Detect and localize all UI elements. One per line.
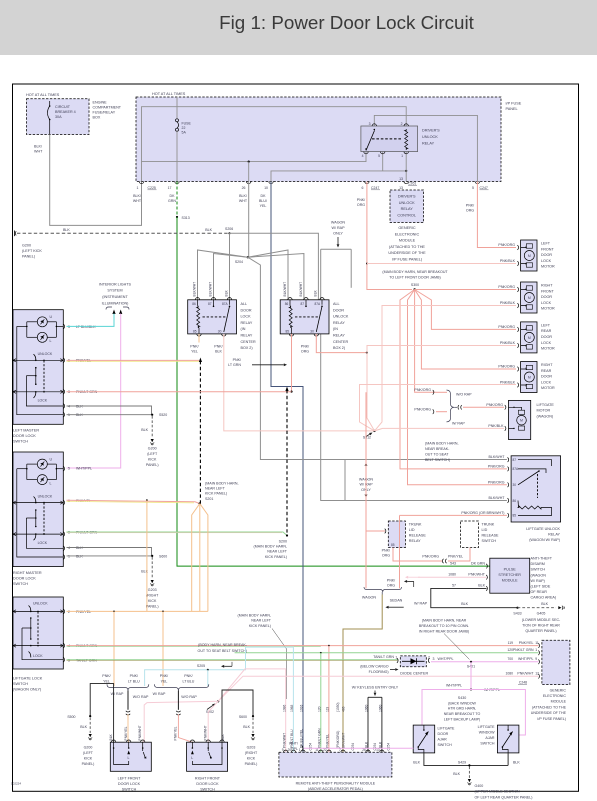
svg-text:SWITCH: SWITCH	[13, 440, 28, 444]
svg-text:S206: S206	[225, 227, 233, 231]
wire BLK module pin 26	[367, 697, 369, 752]
svg-text:S200: S200	[279, 539, 287, 543]
wire PNK/WHT S202 to right front switch	[208, 701, 218, 742]
svg-text:G203: G203	[148, 588, 157, 592]
svg-text:PNK/YEL: PNK/YEL	[124, 726, 128, 740]
svg-text:HOT AT ALL TIMES: HOT AT ALL TIMES	[152, 92, 186, 96]
svg-text:87: 87	[513, 458, 517, 462]
svg-text:FRONT: FRONT	[541, 247, 554, 251]
svg-text:ILLUMINATION): ILLUMINATION)	[102, 302, 129, 306]
svg-text:BREAKER 4: BREAKER 4	[55, 110, 76, 114]
svg-text:LIFTGATE LOCK: LIFTGATE LOCK	[13, 676, 43, 680]
svg-text:HTR GRD HARN,: HTR GRD HARN,	[448, 707, 477, 711]
svg-text:PNK/: PNK/	[184, 674, 192, 678]
svg-text:4: 4	[68, 546, 70, 550]
svg-text:WHT/PPL: WHT/PPL	[438, 657, 454, 661]
svg-text:CARGO AREA): CARGO AREA)	[531, 596, 557, 600]
svg-text:BLK: BLK	[76, 555, 83, 559]
svg-text:M: M	[528, 375, 531, 379]
svg-text:KICK PANEL): KICK PANEL)	[265, 555, 287, 559]
svg-text:PNK/ORG: PNK/ORG	[422, 555, 439, 559]
svg-text:(BACK WINDOW: (BACK WINDOW	[448, 701, 476, 705]
svg-text:LT BLU: LT BLU	[182, 679, 194, 683]
svg-text:UNLOCK: UNLOCK	[33, 602, 48, 606]
svg-text:LEFT MASTER: LEFT MASTER	[13, 429, 39, 433]
relay coil	[197, 300, 199, 306]
arrow PNK/LT GRN pointer	[252, 364, 284, 366]
svg-text:(ATTACHED TO THE: (ATTACHED TO THE	[532, 705, 567, 709]
splice S433	[516, 607, 518, 609]
svg-text:(RIGHT: (RIGHT	[245, 751, 258, 755]
relay switch contact	[224, 306, 230, 332]
svg-text:M: M	[528, 336, 531, 340]
wire fuse 22 to pin 17	[176, 131, 178, 181]
wire pin1 to relay coil pin 2	[142, 107, 407, 182]
svg-text:OF LEFT REAR QUARTER PANEL): OF LEFT REAR QUARTER PANEL)	[475, 795, 533, 799]
svg-text:ORG: ORG	[466, 208, 474, 212]
svg-text:PNK/LT GRN: PNK/LT GRN	[513, 648, 534, 652]
right front door lock switch box	[187, 742, 228, 771]
svg-text:MOTOR: MOTOR	[537, 409, 551, 413]
wire BLK dashed to G400	[468, 767, 470, 779]
svg-text:S300: S300	[411, 283, 419, 287]
splice S430	[470, 689, 472, 691]
wire DK BLU/YEL pin10 to remote module pin1	[271, 182, 303, 753]
svg-text:W/ RAP: W/ RAP	[153, 692, 166, 696]
relay dashed link	[203, 316, 228, 318]
svg-text:L: L	[50, 482, 52, 486]
svg-text:S600: S600	[239, 715, 247, 719]
svg-text:W/ RAP: W/ RAP	[452, 421, 465, 425]
svg-text:LIFTGATE: LIFTGATE	[478, 725, 496, 729]
svg-text:BOX 2): BOX 2)	[333, 346, 345, 350]
svg-text:BLK: BLK	[141, 570, 148, 574]
svg-text:(1050): (1050)	[336, 702, 340, 712]
arrow S312 pointer	[366, 434, 370, 436]
svg-text:GRN: GRN	[168, 199, 176, 203]
relay U1 dashed link	[372, 138, 402, 140]
svg-text:RELAY: RELAY	[333, 321, 345, 325]
wire PNK/ORG (or BRN/WHT) to relay 85	[400, 514, 507, 516]
leader S205	[231, 662, 233, 666]
svg-text:BLK: BLK	[205, 228, 212, 232]
wire to pin 26	[248, 162, 250, 182]
svg-text:PNK/ORG: PNK/ORG	[498, 365, 515, 369]
mech dashed link liftgate switch	[37, 611, 39, 645]
mech dashed link	[43, 503, 45, 534]
svg-text:I/P FUSE PANEL): I/P FUSE PANEL)	[537, 717, 566, 721]
svg-text:PANEL: PANEL	[506, 107, 518, 111]
junction module pin11	[320, 652, 322, 654]
svg-text:WAGON: WAGON	[362, 596, 377, 600]
svg-text:RELEASE: RELEASE	[482, 534, 500, 538]
wire WHT/PPL interior lights to right master pin 5	[67, 314, 121, 469]
svg-text:UNLOCK: UNLOCK	[38, 352, 53, 356]
svg-text:(WAGON: (WAGON	[531, 573, 547, 577]
I/P fuse panel box	[136, 97, 501, 182]
left rear door lock motor M3	[521, 322, 537, 353]
svg-text:LEFT: LEFT	[541, 242, 551, 246]
svg-text:TION OF RIGHT REAR: TION OF RIGHT REAR	[522, 623, 560, 627]
svg-text:TRUNK: TRUNK	[482, 522, 495, 526]
splice S206	[228, 232, 230, 234]
svg-text:HOT AT ALL TIMES: HOT AT ALL TIMES	[26, 93, 60, 97]
svg-text:SYSTEM: SYSTEM	[107, 289, 122, 293]
switch row pin4	[13, 645, 63, 647]
wire BLK/WHT stub wagon	[350, 249, 352, 288]
svg-text:9: 9	[282, 748, 284, 752]
svg-text:OUT TO SEAT: OUT TO SEAT	[425, 452, 449, 456]
splice S600	[151, 555, 153, 557]
svg-text:TRUNK: TRUNK	[409, 522, 422, 526]
arrow keyless	[374, 691, 376, 693]
wire PNK/ORG into trunk relay	[366, 530, 385, 532]
left switch options merged wire	[127, 691, 129, 710]
wire to relay switch pin 4	[142, 152, 367, 162]
svg-text:DRIVER'S: DRIVER'S	[398, 195, 416, 199]
svg-text:YEL: YEL	[161, 679, 168, 683]
switch row pin2	[13, 610, 63, 612]
svg-text:4: 4	[362, 154, 364, 158]
wire BLK right switch to S600 bottom	[222, 690, 253, 742]
svg-text:S600: S600	[159, 554, 167, 558]
relay dashed link	[295, 316, 320, 318]
svg-text:YEL: YEL	[103, 679, 110, 683]
svg-text:(MAIN BODY HARN,: (MAIN BODY HARN,	[425, 442, 458, 446]
svg-text:PNK/BLK: PNK/BLK	[488, 424, 504, 428]
svg-text:C254: C254	[309, 743, 313, 751]
svg-text:PNK/YEL: PNK/YEL	[448, 555, 463, 559]
svg-text:PNK/: PNK/	[382, 549, 390, 553]
svg-text:PNK/: PNK/	[301, 344, 309, 348]
svg-text:86: 86	[192, 302, 196, 306]
svg-text:S430: S430	[458, 696, 466, 700]
circuit breaker 4 box (engine compartment fuse/relay box)	[27, 99, 90, 135]
splice S300	[413, 288, 415, 290]
svg-text:COMPARTMENT: COMPARTMENT	[93, 105, 122, 109]
svg-text:BLK/WHT: BLK/WHT	[283, 282, 287, 297]
svg-text:S313: S313	[182, 216, 190, 220]
svg-text:INTERIOR LIGHTS: INTERIOR LIGHTS	[99, 282, 132, 286]
svg-text:PNK/WHT: PNK/WHT	[282, 733, 286, 748]
svg-text:DRIVER'S: DRIVER'S	[422, 129, 440, 133]
wire PNK/BLK to left front motor	[367, 263, 516, 265]
svg-text:LOCK: LOCK	[541, 259, 552, 263]
splice S520	[151, 414, 153, 416]
svg-text:PANEL): PANEL)	[146, 605, 159, 609]
svg-text:BLK: BLK	[541, 602, 548, 606]
wire BLK left switch to S500	[90, 684, 113, 743]
svg-text:FUSE: FUSE	[182, 122, 192, 126]
junction relay pin 1	[405, 170, 407, 172]
wire PNK/LT GRN left master pin3 to unlock relay 85	[67, 391, 292, 393]
svg-text:(RIGHT: (RIGHT	[146, 594, 159, 598]
svg-text:BLK: BLK	[63, 228, 70, 232]
svg-text:S520: S520	[159, 413, 167, 417]
title bar	[0, 0, 597, 55]
wire BLK/WHT S204 to lock relay 86	[198, 250, 248, 300]
svg-text:SEDAN: SEDAN	[390, 599, 403, 603]
svg-text:PNK/YEL: PNK/YEL	[326, 734, 330, 748]
junction w/rap left	[113, 611, 115, 613]
wire PNK/ORG sedan option down	[399, 515, 401, 588]
svg-text:57: 57	[452, 584, 456, 588]
wire BLK/WHT pin26 to S204	[248, 182, 250, 258]
svg-text:PNK/WHT: PNK/WHT	[138, 725, 142, 740]
svg-text:CENTER: CENTER	[241, 340, 256, 344]
svg-text:PANEL): PANEL)	[82, 762, 95, 766]
trunk lid release switch box	[461, 521, 479, 548]
arrow S202 pointer	[207, 705, 213, 709]
pulse stretcher module box	[490, 558, 530, 593]
wire BLK pulse stretcher to S433	[431, 588, 518, 607]
svg-text:C248: C248	[519, 680, 527, 684]
wire dashed PNK/YEL circuit to S201	[199, 361, 201, 504]
wire PNK/YEL right master pin6 to S201	[67, 500, 200, 503]
diode symbol	[402, 660, 425, 662]
svg-text:GENERIC: GENERIC	[398, 226, 416, 230]
diode pin 2 connector	[428, 658, 429, 663]
svg-text:OUT TO SEAT BELT SWITCH): OUT TO SEAT BELT SWITCH)	[198, 649, 247, 653]
svg-text:BLK: BLK	[141, 428, 148, 432]
wire PNK/YEL left master pin6 to dashed junction	[67, 359, 200, 361]
lamp bracket wiring	[27, 321, 38, 323]
svg-text:BLK: BLK	[453, 772, 460, 776]
svg-text:PNK/ORG: PNK/ORG	[498, 325, 515, 329]
svg-text:WHT/: WHT/	[289, 742, 298, 746]
svg-text:S433: S433	[513, 611, 521, 615]
svg-text:5: 5	[472, 186, 474, 190]
svg-text:BLK/: BLK/	[133, 194, 141, 198]
svg-text:86: 86	[285, 302, 289, 306]
wire BLK pin1 to S520	[67, 414, 153, 416]
svg-text:DIODE CENTER: DIODE CENTER	[400, 671, 428, 675]
left master door lock switch box	[13, 310, 63, 425]
splice S204	[247, 256, 249, 258]
svg-text:5: 5	[68, 467, 70, 471]
contacts	[34, 354, 36, 398]
svg-text:PNK/LT GRN: PNK/LT GRN	[317, 728, 321, 748]
right master door lock switch box	[13, 452, 63, 567]
svg-text:DOOR: DOOR	[438, 732, 449, 736]
svg-text:LIFTGATE: LIFTGATE	[537, 403, 555, 407]
svg-text:85: 85	[286, 329, 290, 333]
svg-text:RELEASE: RELEASE	[409, 534, 427, 538]
svg-text:(LEFT SIDE: (LEFT SIDE	[531, 585, 551, 589]
svg-text:SWITCH: SWITCH	[13, 682, 28, 686]
wire PNK/BLK lock relay 30 to S312	[224, 334, 375, 431]
svg-text:I/P FUSE PANEL): I/P FUSE PANEL)	[392, 258, 423, 262]
svg-text:(LOWER MIDDLE SEC-: (LOWER MIDDLE SEC-	[522, 618, 561, 622]
svg-text:RIGHT: RIGHT	[541, 284, 553, 288]
svg-text:(LEFT KICK: (LEFT KICK	[22, 249, 42, 253]
wire PNK/YEL into left front switch	[127, 714, 130, 742]
svg-text:PNK/: PNK/	[190, 344, 198, 348]
ground G405	[558, 606, 561, 609]
svg-text:BLK/: BLK/	[239, 194, 247, 198]
svg-text:1068: 1068	[290, 704, 294, 712]
all door lock relay K1 box	[188, 300, 237, 334]
svg-text:BLK: BLK	[478, 584, 485, 588]
svg-text:PNK/BLK: PNK/BLK	[500, 301, 516, 305]
junction pin 26 feed	[248, 161, 250, 163]
svg-text:GENERIC: GENERIC	[550, 688, 567, 692]
driver's unlock relay control box (GEM)	[390, 190, 424, 223]
svg-text:ANTI-THEFT: ANTI-THEFT	[531, 557, 553, 561]
wire BLK dashed to S206	[17, 232, 230, 234]
svg-text:DOOR: DOOR	[541, 335, 552, 339]
svg-text:BLK/WHT: BLK/WHT	[209, 282, 213, 297]
svg-text:DOOR LOCK: DOOR LOCK	[196, 782, 219, 786]
arrow up continuation PNK/YEL	[199, 358, 202, 363]
svg-text:MOTOR: MOTOR	[541, 347, 555, 351]
svg-text:LT BLU: LT BLU	[128, 679, 140, 683]
wire PNK/YEL 119 to module pin 22	[328, 646, 330, 753]
svg-text:(MAIN BODY HARN, NEAR BREAKOUT: (MAIN BODY HARN, NEAR BREAKOUT	[382, 270, 448, 274]
wire (PNK/ORG) BRN/WHT tan run to module pin7	[343, 595, 382, 753]
svg-text:DOOR LOCK: DOOR LOCK	[13, 577, 36, 581]
svg-text:87A: 87A	[222, 302, 229, 306]
svg-text:LOCK: LOCK	[541, 341, 552, 345]
svg-text:WHT/PPL: WHT/PPL	[446, 683, 462, 687]
wire PNK/ORG S300 to liftgate w/o rap stub	[415, 290, 436, 393]
svg-text:PNK/: PNK/	[214, 344, 222, 348]
svg-text:REAR: REAR	[541, 329, 552, 333]
svg-text:I/P FUSE: I/P FUSE	[506, 102, 522, 106]
svg-text:120: 120	[317, 706, 321, 712]
wire BLK keyless bar	[368, 696, 382, 698]
wire PNK/ORG C247 pin5 to left front motor	[477, 182, 516, 248]
svg-text:NEAR LEFT: NEAR LEFT	[267, 550, 288, 554]
svg-text:U: U	[50, 315, 53, 319]
svg-text:KICK: KICK	[84, 757, 93, 761]
svg-text:REMOTE ANTI-THEFT PERSONALITY: REMOTE ANTI-THEFT PERSONALITY MODULE	[296, 781, 376, 785]
svg-text:1080: 1080	[505, 672, 513, 676]
svg-text:PULSE: PULSE	[504, 568, 517, 572]
svg-text:6: 6	[362, 186, 364, 190]
svg-text:M: M	[528, 254, 531, 258]
svg-text:AJAR: AJAR	[438, 738, 448, 742]
splice S313	[176, 216, 178, 218]
svg-text:DOOR: DOOR	[541, 253, 552, 257]
svg-text:9: 9	[535, 657, 537, 661]
svg-text:C225: C225	[148, 186, 156, 190]
svg-text:MODULE: MODULE	[399, 239, 416, 243]
svg-text:YEL: YEL	[191, 350, 198, 354]
svg-text:UNLOCK: UNLOCK	[422, 135, 438, 139]
svg-text:85: 85	[391, 543, 395, 547]
wire fuse 22 feed	[176, 97, 178, 119]
brace interior lights	[106, 307, 129, 310]
wire yellow stripe 2	[67, 501, 195, 502]
junction PNK/LT GRN	[290, 391, 292, 393]
svg-text:12: 12	[535, 672, 539, 676]
svg-text:(MAIN BODY HARN,: (MAIN BODY HARN,	[205, 481, 238, 485]
svg-text:PNK/ORG: PNK/ORG	[414, 408, 431, 412]
svg-text:1: 1	[401, 154, 403, 158]
svg-text:W/ RAP: W/ RAP	[331, 226, 345, 230]
arrow wagon w/rap only	[337, 237, 339, 244]
svg-text:3: 3	[433, 657, 435, 661]
svg-text:PNK/WHT: PNK/WHT	[517, 672, 534, 676]
svg-text:(MAIN BODY HARN, NEAR: (MAIN BODY HARN, NEAR	[422, 619, 467, 623]
svg-text:PANEL): PANEL)	[146, 463, 159, 467]
svg-text:PANEL): PANEL)	[22, 254, 35, 258]
svg-text:30A: 30A	[55, 115, 62, 119]
svg-text:MOTOR: MOTOR	[541, 307, 555, 311]
svg-text:PNK/: PNK/	[387, 579, 395, 583]
liftgate motor box	[509, 400, 531, 439]
svg-text:PNK/BLK: PNK/BLK	[500, 381, 516, 385]
wire PNK/BLK S312 to right front motor	[375, 306, 517, 431]
svg-text:ONLY: ONLY	[333, 231, 343, 235]
wire lt grn stripe pin4 segment	[67, 646, 321, 648]
switch contacts	[191, 751, 194, 755]
svg-text:(PNK/ORG): (PNK/ORG)	[336, 731, 340, 748]
wire BLK module pin 13	[381, 697, 383, 752]
right switch options brace	[154, 684, 208, 690]
splice S500	[89, 715, 91, 717]
svg-text:W/O RAP: W/O RAP	[456, 392, 472, 396]
circuit breaker symbol	[49, 101, 51, 106]
svg-text:UNDERSIDE OF THE: UNDERSIDE OF THE	[531, 711, 567, 715]
svg-text:BLK: BLK	[225, 289, 229, 296]
svg-text:BLK/WHT: BLK/WHT	[489, 496, 506, 500]
wire TAN/LT GRN liftgate pin3 to diode center	[67, 659, 399, 661]
svg-text:C261: C261	[408, 182, 416, 186]
svg-text:ORG: ORG	[301, 350, 309, 354]
wire PNK/YEL 119 row liftgate pin4 to GEM	[67, 645, 539, 647]
wire PNK/WHT S202 to left front switch	[143, 701, 218, 742]
arrow down to BLK/WHT	[365, 493, 367, 495]
svg-text:W/O RAP: W/O RAP	[133, 695, 149, 699]
svg-text:MODULE: MODULE	[551, 700, 567, 704]
svg-text:ORG: ORG	[387, 584, 395, 588]
svg-text:LT GRN: LT GRN	[228, 363, 241, 367]
brace liftgate motor options	[447, 390, 455, 422]
svg-text:1: 1	[299, 748, 301, 752]
svg-text:G405: G405	[537, 611, 546, 615]
svg-text:PNK/YEL: PNK/YEL	[174, 726, 178, 740]
svg-text:ELECTRONIC: ELECTRONIC	[543, 694, 567, 698]
wire PNK/BLK S312 to right rear motor	[360, 385, 517, 431]
wire WHT/PPL 700 diode to GEM pin 9	[431, 661, 539, 663]
svg-text:RELAY: RELAY	[422, 141, 435, 145]
wire PNK/LT BLU right brace drop	[207, 670, 209, 686]
wire BLK pin4	[67, 406, 152, 415]
svg-text:PNK/YEL: PNK/YEL	[519, 641, 534, 645]
relay U1 switch contact	[366, 131, 375, 151]
junction module pin22	[328, 645, 330, 647]
svg-text:PNK/ORG: PNK/ORG	[486, 403, 503, 407]
svg-text:(BELOW CARGO: (BELOW CARGO	[360, 664, 389, 668]
svg-text:S205: S205	[197, 664, 205, 668]
wire BLK/WHT wagon branch top	[321, 248, 352, 250]
svg-text:M: M	[520, 419, 523, 423]
svg-text:LEFT: LEFT	[541, 323, 551, 327]
svg-text:LEFT FRONT: LEFT FRONT	[118, 776, 141, 780]
wire relay pin 3 to C247 pin 5	[374, 115, 477, 181]
liftgate lock switch box	[13, 597, 63, 669]
wire PNK/ORG S300 to right rear motor	[415, 290, 516, 370]
splice S600 bottom	[252, 715, 254, 717]
svg-text:SWITCH: SWITCH	[13, 582, 28, 586]
svg-text:86: 86	[513, 499, 517, 503]
svg-text:PNK/ORG: PNK/ORG	[488, 480, 505, 484]
arrow up to BLK/WHT	[365, 466, 367, 473]
wire WHT/PPL into door ajar switch	[304, 747, 414, 749]
svg-text:RELAY: RELAY	[409, 539, 421, 543]
